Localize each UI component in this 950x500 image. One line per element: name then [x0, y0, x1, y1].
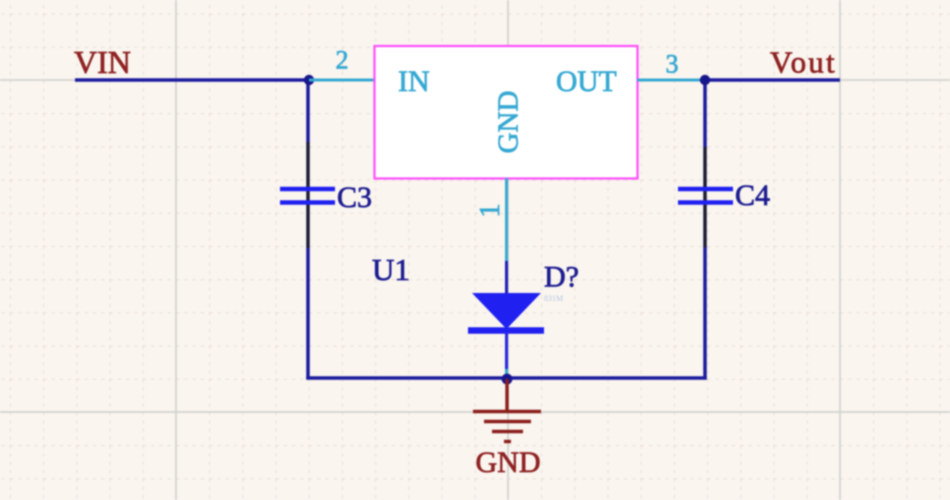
ground symbol bar 3 [492, 430, 523, 433]
junction node VIN/pin2 [304, 75, 314, 85]
op-amp/regulator body U1 [375, 46, 638, 179]
ground symbol bar 4 [504, 440, 511, 443]
capacitor C3 pin (black) [307, 142, 310, 248]
svg-text:C4: C4 [735, 179, 770, 212]
svg-text:GND: GND [476, 446, 541, 479]
wire left vertical (VIN node down to bottom rail) [306, 78, 310, 379]
diode D? triangle [472, 293, 541, 329]
ground symbol bar 2 [484, 420, 531, 423]
junction node Vout/pin3 [700, 75, 710, 85]
svg-text:GND: GND [493, 91, 525, 154]
diode cathode pin tip (cyan) [505, 369, 508, 375]
diode D? anode wire [505, 261, 508, 294]
capacitor C4 plates [678, 189, 733, 203]
svg-text:D?: D? [544, 261, 579, 294]
svg-text:OUT: OUT [556, 66, 617, 98]
junction node bottom (diode/GND) [502, 374, 513, 385]
capacitor C3 plates [280, 189, 335, 203]
wire right vertical (Vout node down to bottom rail) [703, 78, 707, 379]
svg-text:VIN: VIN [74, 44, 131, 80]
svg-text:Vout: Vout [770, 45, 837, 80]
pin 2 stub (cyan) [309, 79, 375, 82]
svg-text:3: 3 [666, 50, 679, 79]
wire VIN horizontal [75, 78, 309, 82]
svg-text:2: 2 [336, 46, 349, 75]
svg-text:IN: IN [398, 65, 430, 98]
pin 1 stub (cyan, from GND pin of U1) [505, 178, 508, 262]
pin 3 stub (cyan) [637, 79, 705, 82]
wire Vout horizontal [705, 78, 840, 82]
svg-text:1: 1 [475, 203, 506, 217]
svg-text:831M: 831M [544, 294, 563, 303]
svg-text:C3: C3 [337, 181, 372, 214]
diode D? cathode wire [505, 333, 508, 371]
svg-text:U1: U1 [372, 252, 410, 287]
diode D? cathode bar [468, 327, 544, 334]
ground symbol bar 1 [473, 410, 541, 413]
capacitor C4 pin (black) [704, 147, 707, 247]
ground symbol stem [505, 379, 508, 412]
wire bottom rail [306, 376, 706, 380]
